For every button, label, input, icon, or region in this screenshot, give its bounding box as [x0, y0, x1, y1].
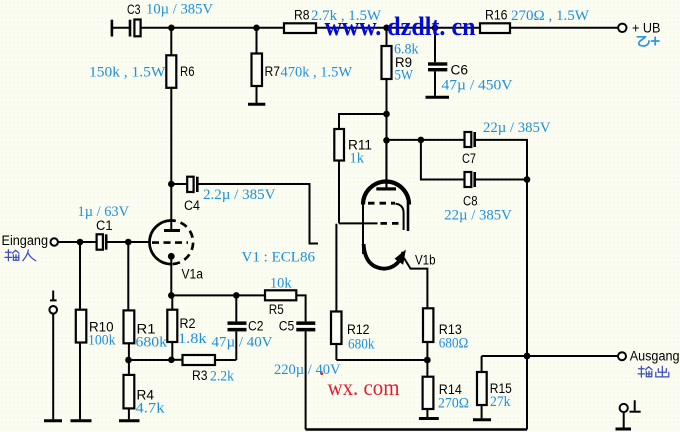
resistor R10 [71, 242, 116, 421]
node junction R6 / C4 [168, 181, 175, 188]
label net 乙+ [637, 37, 659, 46]
svg-text:www. dzdlt. cn: www. dzdlt. cn [325, 12, 476, 41]
wire C7 right to output column [476, 140, 527, 180]
resistor R7 [252, 28, 353, 86]
svg-text:V1 : ECL86: V1 : ECL86 [242, 250, 316, 266]
node junction at R9 top [383, 25, 390, 32]
svg-text:R6: R6 [180, 64, 195, 79]
svg-text:1µ / 63V: 1µ / 63V [78, 204, 130, 220]
label Eingang [2, 233, 49, 248]
wire output row [482, 355, 618, 357]
node junction R2 bottom [168, 357, 175, 364]
svg-text:22µ / 385V: 22µ / 385V [483, 120, 551, 136]
node junction R1 top [125, 239, 132, 246]
svg-text:680k: 680k [136, 334, 168, 350]
svg-text:47µ / 450V: 47µ / 450V [442, 78, 513, 94]
label V1a [182, 266, 204, 281]
svg-text:2.2k: 2.2k [210, 368, 234, 384]
svg-text:R2: R2 [180, 316, 196, 331]
wire cathode row to R5 [171, 294, 265, 296]
resistor R1 [124, 242, 168, 360]
wire C7/C8 branch down [421, 140, 464, 180]
svg-text:R16: R16 [485, 7, 508, 22]
capacitor C7 [462, 120, 551, 166]
pentode V1b cathode arrow [395, 250, 406, 265]
svg-text:1k: 1k [350, 151, 365, 167]
label V1b [415, 253, 436, 268]
wire anode node to C7 [387, 139, 465, 141]
svg-text:R12: R12 [347, 322, 370, 337]
node junction C8 output column [524, 176, 531, 183]
svg-text:C7: C7 [462, 151, 476, 166]
wire R9 node to R11 top [339, 114, 387, 129]
wire output column to bottom rail [526, 356, 528, 430]
svg-text:680Ω: 680Ω [439, 336, 469, 352]
svg-text:Eingang: Eingang [2, 233, 49, 248]
wire top rail R16 to +UB terminal [510, 27, 617, 29]
resistor R8 [284, 7, 382, 33]
svg-text:150k , 1.5W: 150k , 1.5W [89, 65, 166, 81]
resistor R15 [473, 356, 512, 420]
label V1 : ECL86 [242, 250, 316, 266]
wire R6 bottom to V1a anode [170, 88, 172, 230]
capacitor C1 [78, 204, 130, 250]
resistor R4 [119, 360, 165, 421]
svg-text:C5: C5 [279, 319, 295, 334]
svg-text:680k: 680k [348, 336, 375, 352]
wire V1a cathode down [170, 256, 172, 295]
pentode V1b anode [376, 140, 396, 190]
node junction C2 top [233, 292, 240, 299]
wire bottom rail [306, 428, 527, 430]
node junction V1a cathode row [168, 292, 175, 299]
node junction at R6 top [168, 25, 175, 32]
capacitor C4 [171, 177, 275, 213]
capacitor C6 [426, 28, 513, 97]
svg-text:V1b: V1b [415, 253, 436, 268]
capacitor C3 [112, 1, 213, 36]
svg-text:V1a: V1a [182, 266, 204, 281]
ground terminal bottom right [616, 400, 641, 429]
ground terminal below input [44, 291, 62, 421]
triode V1a cathode dot [168, 253, 175, 260]
svg-text:C4: C4 [184, 198, 200, 213]
svg-text:47µ / 40V: 47µ / 40V [212, 335, 273, 351]
svg-text:5W: 5W [395, 68, 414, 84]
node junction R1 R4 [125, 357, 132, 364]
wire C1 to V1a grid [108, 241, 151, 243]
pentode V1b screen grid g2 [368, 203, 404, 230]
resistor R12 [331, 312, 375, 361]
svg-text:+ UB: + UB [632, 21, 661, 36]
label 输入 [5, 250, 36, 261]
node junction R9 / R11 [383, 111, 390, 118]
wire output column down [526, 180, 528, 357]
wire R5 to C5 [296, 295, 305, 321]
node junction output column [524, 353, 531, 360]
resistor R9 [382, 28, 419, 84]
svg-text:10k: 10k [270, 276, 292, 292]
svg-text:4.7k: 4.7k [136, 401, 166, 417]
node junction at C6 top [432, 25, 439, 32]
resistor R5 [265, 276, 296, 318]
wire R3 to C2 bottom [215, 359, 236, 361]
wire top rail R8 to R16 [316, 27, 480, 29]
ground below R7 [248, 86, 265, 104]
svg-text:270Ω , 1.5W: 270Ω , 1.5W [511, 8, 590, 24]
svg-text:100k: 100k [88, 332, 116, 348]
triode V1a envelope [150, 221, 194, 265]
terminal output [618, 348, 680, 363]
watermark www.dzdlt.cn [325, 12, 476, 41]
wire V1b cathode to R13 [404, 258, 427, 308]
wire C8 right to output column [476, 179, 527, 181]
resistor R2 [167, 295, 207, 359]
terminal +UB [618, 21, 660, 36]
resistor R16 [480, 7, 590, 33]
wire R1/R4 node to R2 node [129, 359, 172, 361]
node junction V1b anode / C7 branch [383, 137, 390, 144]
svg-text:27k: 27k [490, 394, 511, 410]
resistor R11 [334, 129, 372, 167]
capacitor C8 [444, 172, 512, 223]
node junction R10 top [77, 239, 84, 246]
svg-text:R3: R3 [192, 368, 208, 383]
pentode V1b envelope right edge [407, 204, 410, 232]
pentode V1b envelope dome [363, 182, 409, 205]
resistor R13 [423, 308, 468, 360]
svg-text:wx. com: wx. com [328, 375, 400, 400]
svg-text:2.2µ / 385V: 2.2µ / 385V [203, 187, 276, 203]
triode V1a grid dashes [152, 241, 188, 244]
wire C4 to V1b grid area [199, 184, 319, 244]
svg-text:C2: C2 [248, 319, 264, 334]
wire top rail C3 to R8 [141, 27, 284, 29]
resistor R3 [171, 355, 234, 384]
wire R9 bottom to V1b anode node [386, 79, 388, 187]
label 输出 [638, 366, 669, 377]
svg-text:10µ / 385V: 10µ / 385V [146, 1, 213, 17]
pentode V1b envelope left edge [362, 204, 364, 255]
capacitor C5 [274, 319, 341, 430]
node junction at R7 top [253, 25, 260, 32]
wire R12 lead from grid node [335, 224, 337, 312]
resistor R14 [419, 360, 469, 419]
node junction R12 R13 R14 [424, 357, 431, 364]
red mark dot [320, 372, 323, 375]
svg-text:C1: C1 [96, 218, 113, 233]
svg-text:470k , 1.5W: 470k , 1.5W [281, 65, 353, 81]
pentode V1b cathode arc [364, 244, 404, 269]
wire input to C1 [58, 241, 97, 243]
svg-text:1.8k: 1.8k [178, 331, 207, 347]
capacitor C2 [212, 295, 273, 360]
resistor R6 [89, 28, 195, 88]
svg-text:Ausgang: Ausgang [630, 348, 680, 363]
wire top supply rail left segment [113, 27, 130, 29]
triode V1a anode [164, 229, 180, 232]
svg-text:270Ω: 270Ω [438, 396, 469, 412]
terminal input [51, 238, 58, 245]
svg-text:22µ / 385V: 22µ / 385V [444, 207, 512, 223]
svg-text:R5: R5 [269, 302, 284, 317]
svg-text:R7: R7 [265, 64, 281, 79]
svg-text:C8: C8 [463, 194, 478, 209]
svg-text:C6: C6 [451, 62, 469, 77]
node junction C7/C8 branch [418, 137, 425, 144]
svg-text:R8: R8 [294, 7, 310, 22]
wire R12 bottom to R13/R14 node [336, 359, 427, 361]
pentode V1b control grid g1 dashes [381, 222, 401, 225]
wire R11 bottom to V1b grid [339, 161, 378, 224]
watermark wx. com [328, 375, 400, 400]
svg-text:C3: C3 [127, 2, 141, 17]
